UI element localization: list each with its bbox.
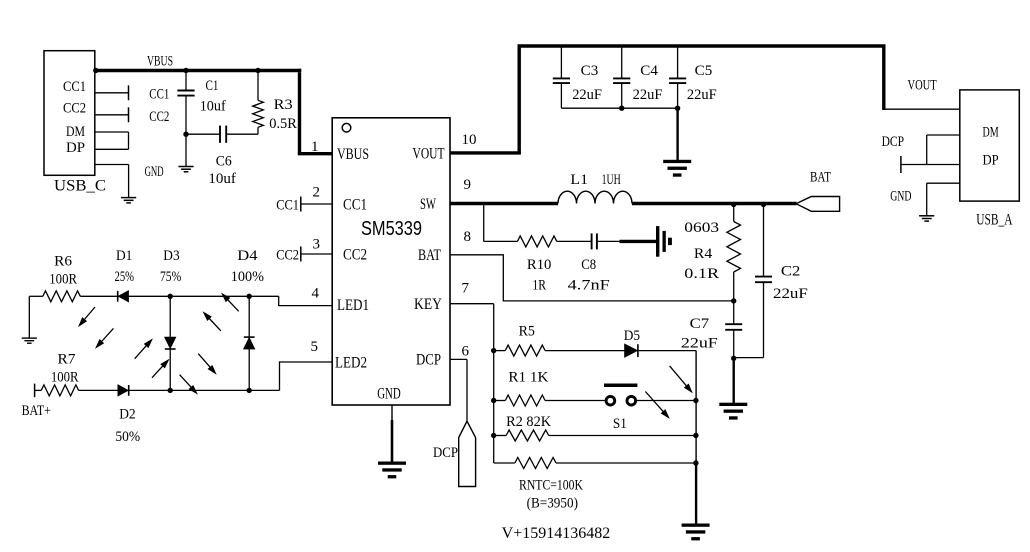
svg-text:0.5R: 0.5R: [269, 116, 297, 132]
svg-text:CC1: CC1: [149, 87, 169, 103]
svg-text:9: 9: [464, 177, 472, 193]
svg-text:R6: R6: [54, 254, 72, 270]
svg-text:RNTC=100K: RNTC=100K: [519, 478, 583, 494]
svg-text:1UH: 1UH: [602, 172, 621, 188]
svg-text:6: 6: [462, 344, 470, 360]
svg-text:2: 2: [313, 184, 321, 200]
svg-text:C5: C5: [695, 63, 713, 79]
svg-text:VOUT: VOUT: [908, 78, 937, 94]
svg-text:VBUS: VBUS: [147, 53, 173, 69]
svg-text:CC2: CC2: [276, 247, 299, 263]
svg-text:CC2: CC2: [63, 101, 86, 117]
svg-text:7: 7: [462, 281, 470, 297]
svg-text:USB_C: USB_C: [54, 178, 106, 195]
svg-text:CC2: CC2: [149, 109, 169, 125]
svg-text:S1: S1: [613, 416, 627, 432]
svg-text:DM: DM: [66, 124, 85, 140]
svg-text:DCP: DCP: [433, 445, 458, 461]
svg-text:VBUS: VBUS: [337, 146, 369, 163]
svg-text:GND: GND: [890, 188, 911, 204]
svg-text:0603: 0603: [684, 220, 719, 236]
svg-text:100%: 100%: [231, 269, 264, 285]
svg-text:22uF: 22uF: [773, 286, 808, 302]
svg-text:BAT: BAT: [810, 170, 831, 186]
svg-text:LED1: LED1: [337, 297, 369, 314]
svg-text:LED2: LED2: [335, 354, 367, 371]
svg-text:D3: D3: [163, 248, 179, 264]
svg-text:4: 4: [312, 286, 320, 302]
svg-text:22uF: 22uF: [687, 87, 717, 103]
svg-text:SW: SW: [420, 196, 436, 213]
svg-text:R5: R5: [519, 324, 535, 340]
svg-text:GND: GND: [145, 164, 164, 180]
svg-text:C7: C7: [690, 316, 710, 332]
svg-text:1: 1: [311, 139, 319, 155]
svg-text:R3: R3: [274, 97, 293, 113]
svg-text:D5: D5: [624, 328, 640, 344]
svg-text:KEY: KEY: [414, 296, 442, 313]
svg-text:100R: 100R: [49, 272, 77, 288]
svg-text:L1: L1: [570, 172, 588, 188]
svg-text:DCP: DCP: [416, 352, 441, 369]
svg-text:C8: C8: [581, 257, 596, 273]
svg-text:BAT: BAT: [418, 247, 441, 264]
svg-text:DM: DM: [983, 125, 999, 141]
svg-text:1R: 1R: [532, 278, 546, 294]
svg-text:R10: R10: [527, 257, 552, 273]
svg-text:C3: C3: [581, 63, 599, 79]
svg-text:8: 8: [464, 229, 472, 245]
svg-text:D4: D4: [237, 248, 258, 264]
svg-text:3: 3: [313, 236, 321, 252]
svg-text:75%: 75%: [160, 269, 181, 285]
svg-text:22uF: 22uF: [681, 335, 718, 351]
svg-text:C6: C6: [216, 154, 232, 170]
svg-text:D1: D1: [116, 248, 132, 264]
svg-text:10: 10: [462, 132, 477, 148]
svg-text:C1: C1: [206, 78, 219, 94]
svg-text:SM5339: SM5339: [361, 218, 422, 240]
svg-text:DCP: DCP: [882, 134, 904, 150]
svg-text:10uf: 10uf: [200, 99, 226, 115]
svg-text:25%: 25%: [115, 269, 135, 285]
svg-text:22uF: 22uF: [633, 87, 663, 103]
svg-text:CC1: CC1: [276, 197, 299, 213]
svg-text:CC1: CC1: [343, 197, 367, 214]
svg-text:50%: 50%: [115, 429, 140, 445]
svg-text:R1 1K: R1 1K: [508, 370, 548, 386]
svg-text:C2: C2: [781, 264, 801, 280]
svg-text:10uf: 10uf: [208, 171, 236, 187]
svg-text:R2 82K: R2 82K: [506, 414, 551, 430]
svg-text:VOUT: VOUT: [413, 145, 445, 162]
svg-text:0.1R: 0.1R: [684, 266, 719, 282]
svg-text:100R: 100R: [51, 370, 79, 386]
svg-text:4.7nF: 4.7nF: [568, 278, 610, 294]
svg-text:R7: R7: [58, 352, 76, 368]
svg-text:R4: R4: [694, 246, 713, 262]
svg-text:5: 5: [311, 339, 319, 355]
svg-text:C4: C4: [640, 63, 658, 79]
svg-text:CC1: CC1: [63, 79, 86, 95]
svg-text:GND: GND: [377, 386, 401, 403]
svg-text:D2: D2: [119, 407, 136, 423]
svg-text:USB_A: USB_A: [976, 212, 1013, 229]
svg-text:BAT+: BAT+: [22, 403, 51, 419]
svg-text:DP: DP: [66, 140, 85, 156]
svg-text:V+15914136482: V+15914136482: [502, 525, 611, 542]
svg-text:(B=3950): (B=3950): [527, 496, 578, 512]
svg-text:DP: DP: [983, 153, 999, 169]
svg-text:22uF: 22uF: [572, 87, 602, 103]
svg-text:CC2: CC2: [343, 247, 367, 264]
